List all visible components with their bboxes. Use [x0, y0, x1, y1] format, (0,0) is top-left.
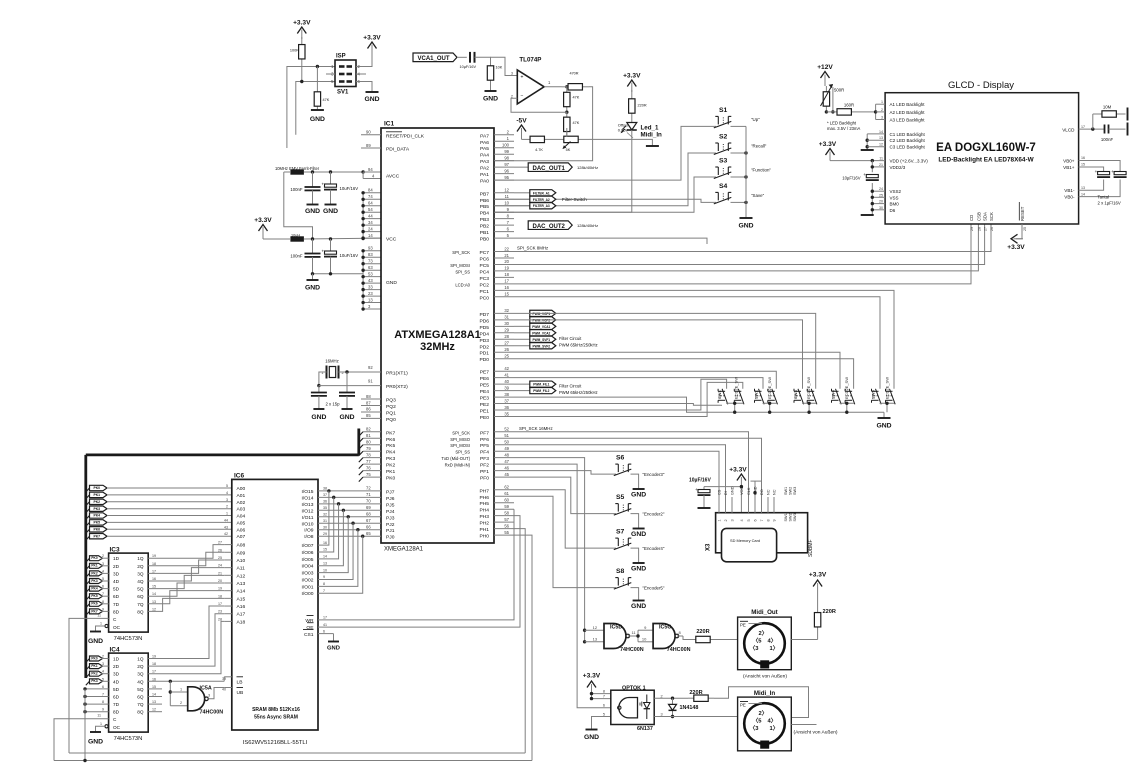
svg-text:〈3: 〈3	[750, 724, 760, 732]
svg-text:VDD (+2.6V...3.3V): VDD (+2.6V...3.3V)	[890, 159, 929, 164]
svg-text:A04: A04	[237, 514, 246, 520]
svg-text:57: 57	[504, 517, 509, 522]
switch SW2 encoder A	[759, 389, 765, 405]
svg-text:PF7: PF7	[480, 430, 489, 436]
svg-text:PA6: PA6	[480, 140, 489, 146]
net flag PK7 to SRAM A07	[86, 536, 90, 540]
svg-text:CS1: CS1	[304, 632, 314, 638]
svg-text:I/O03: I/O03	[302, 571, 314, 577]
svg-text:S5: S5	[616, 494, 625, 501]
switch S5	[614, 509, 632, 515]
svg-text:74HC00N: 74HC00N	[620, 647, 644, 653]
svg-text:500R: 500R	[834, 88, 844, 93]
ground GND under 10K	[490, 84, 492, 91]
power +3.3V at ISP pin2	[368, 42, 377, 49]
nand gate IC5C 74HC00N	[653, 624, 675, 649]
svg-text:44: 44	[224, 518, 228, 522]
pin SRAM IO05 wire to data pair	[318, 504, 339, 559]
svg-text:6D: 6D	[113, 695, 120, 700]
svg-text:8: 8	[102, 700, 104, 704]
svg-text:+3.3V: +3.3V	[729, 467, 747, 474]
svg-text:PA4: PA4	[480, 153, 489, 159]
svg-text:S6: S6	[616, 455, 625, 462]
svg-text:3: 3	[208, 694, 210, 698]
svg-text:49: 49	[504, 446, 509, 451]
svg-text:16: 16	[1081, 156, 1085, 160]
svg-text:PJ1: PJ1	[386, 528, 395, 534]
net flag PK2 into IC4 pin 4	[86, 674, 90, 678]
svg-text:5Q: 5Q	[137, 587, 144, 592]
svg-text:13: 13	[1081, 186, 1085, 190]
svg-text:A11: A11	[237, 566, 246, 572]
svg-text:61: 61	[504, 491, 509, 496]
svg-text:25: 25	[1023, 227, 1027, 231]
svg-text:7: 7	[102, 592, 104, 596]
svg-text:PK0: PK0	[386, 476, 396, 482]
wire ISP pin6 to GND	[356, 82, 372, 93]
svg-text:PB2: PB2	[480, 224, 490, 230]
svg-text:SDA: SDA	[983, 212, 988, 221]
svg-text:Midi_In: Midi_In	[641, 132, 663, 139]
wire PF7 SCK to SD CLK	[514, 432, 749, 497]
svg-text:7D: 7D	[113, 602, 120, 607]
svg-text:35: 35	[323, 506, 327, 510]
svg-text:PB0: PB0	[480, 237, 490, 243]
svg-text:1D: 1D	[113, 657, 120, 662]
svg-text:18: 18	[152, 562, 156, 566]
wire latch enable rail 2	[54, 760, 532, 762]
svg-text:ECD2E_SW: ECD2E_SW	[733, 377, 738, 399]
wire switch S4 to common bus	[731, 201, 747, 203]
pin SRAM IO11 wire to IC1 PJ3	[318, 516, 381, 518]
svg-text:NC: NC	[773, 489, 777, 495]
svg-text:PD0: PD0	[479, 357, 489, 363]
svg-text:6: 6	[102, 685, 104, 689]
wire IC3 3Q to SRAM A10	[148, 560, 224, 573]
ground GND encoder rail	[883, 412, 885, 418]
svg-text:SD Memory Card: SD Memory Card	[730, 538, 760, 543]
svg-text:1Q: 1Q	[137, 556, 144, 561]
capacitor 10uF/16V coupling	[457, 56, 467, 58]
svg-text:25: 25	[504, 353, 509, 358]
switch SW5 encoder A	[876, 389, 882, 405]
svg-text:10µF/16V: 10µF/16V	[842, 176, 860, 181]
switch SW3 encoder A	[798, 389, 804, 405]
svg-text:+3.3V: +3.3V	[809, 572, 827, 579]
wire MIDI out pin4 to pullup	[791, 639, 817, 641]
svg-text:VB0+: VB0+	[1063, 159, 1075, 164]
svg-text:3: 3	[102, 562, 104, 566]
svg-text:59: 59	[504, 504, 509, 509]
svg-text:40: 40	[504, 379, 509, 384]
wire A1-A3 pin bus	[875, 104, 877, 119]
svg-text:D6: D6	[890, 208, 896, 213]
svg-text:5Q: 5Q	[137, 687, 144, 692]
svg-text:PK0: PK0	[91, 556, 97, 560]
ground GND left cap	[313, 408, 324, 410]
svg-text:27: 27	[218, 541, 222, 545]
svg-text:18: 18	[504, 272, 509, 277]
svg-text:PJ3: PJ3	[386, 515, 395, 521]
svg-text:5: 5	[747, 519, 751, 521]
svg-text:37: 37	[504, 398, 509, 403]
svg-text:84: 84	[368, 188, 373, 193]
svg-text:Led_1: Led_1	[641, 125, 659, 132]
svg-text:5D: 5D	[113, 687, 120, 692]
svg-text:30: 30	[323, 525, 327, 529]
resistor 160R backlight	[826, 111, 837, 113]
svg-text:10M: 10M	[1103, 105, 1112, 110]
svg-text:56: 56	[504, 523, 509, 528]
svg-text:SW4: SW4	[831, 390, 836, 399]
svg-text:PK4: PK4	[93, 514, 100, 518]
svg-text:+: +	[863, 172, 866, 177]
svg-text:15: 15	[323, 548, 327, 552]
svg-text:81: 81	[366, 433, 371, 438]
switch SW1 encoder A	[722, 389, 728, 405]
ground GND 100nF (rotated)	[1127, 123, 1129, 136]
svg-text:DI: DI	[724, 491, 728, 495]
wire C1-C3 pin bus to GND	[866, 134, 868, 150]
wire PC2 CD to GLCD	[514, 224, 971, 284]
switch S6	[614, 469, 632, 476]
switch S3	[714, 172, 732, 179]
wire PC4 CSB to GLCD	[514, 224, 978, 271]
svg-text:PD7: PD7	[479, 312, 489, 318]
svg-text:97: 97	[504, 162, 509, 167]
svg-text:PC2: PC2	[479, 282, 489, 288]
svg-text:A15: A15	[237, 596, 246, 602]
svg-text:PH5: PH5	[479, 501, 489, 507]
ground GND under AVCC 100nF	[307, 204, 319, 206]
svg-text:89: 89	[366, 143, 371, 148]
svg-text:Midi_In: Midi_In	[754, 690, 776, 697]
svg-text:15: 15	[152, 585, 156, 589]
svg-text:SW1: SW1	[717, 390, 722, 399]
svg-text:PH6: PH6	[479, 495, 489, 501]
svg-text:86: 86	[366, 407, 371, 412]
svg-text:21: 21	[218, 571, 222, 575]
svg-text:1: 1	[100, 622, 102, 626]
svg-text:3: 3	[881, 116, 883, 120]
svg-text:28: 28	[218, 617, 222, 621]
svg-text:10µF/16V: 10µF/16V	[460, 65, 477, 69]
wire PH6 to button S8	[514, 496, 616, 587]
wire IC3 4Q to SRAM A11	[148, 568, 224, 581]
svg-text:PJ6: PJ6	[386, 496, 395, 502]
svg-text:47K: 47K	[573, 96, 580, 100]
svg-text:"Encoder5": "Encoder5"	[643, 586, 665, 591]
svg-text:PK1: PK1	[91, 664, 97, 668]
svg-text:PK4: PK4	[386, 450, 396, 456]
svg-text:PDI_DATA: PDI_DATA	[386, 147, 410, 153]
svg-text:10: 10	[642, 637, 647, 642]
svg-text:100R: 100R	[290, 49, 299, 53]
wire NAND IC5A inputs from 4Q	[169, 681, 171, 705]
wire switch S2 to common bus	[731, 152, 747, 154]
pin SRAM IO9 wire to IC1 PJ1	[318, 529, 381, 531]
svg-text:BM0: BM0	[890, 202, 900, 207]
svg-text:A08: A08	[237, 543, 246, 549]
pin SRAM A12	[224, 574, 232, 576]
svg-text:PE4: PE4	[480, 389, 490, 395]
svg-text:4D: 4D	[113, 579, 120, 584]
wire IC3 7Q to SRAM A14	[148, 591, 224, 604]
svg-text:16: 16	[152, 677, 156, 681]
ground GND optocoupler	[586, 729, 598, 731]
wire SW5 pair bottom tie	[880, 402, 894, 405]
wire IC4 5D-8D inputs bus	[85, 688, 109, 690]
svg-text:PC6: PC6	[479, 256, 489, 262]
wire op-amp output	[544, 86, 561, 88]
svg-text:38: 38	[504, 392, 509, 397]
svg-text:13: 13	[152, 600, 156, 604]
pins PA7-PA0	[494, 134, 514, 136]
switch SW4 encoder A	[836, 389, 842, 405]
svg-text:15: 15	[152, 685, 156, 689]
svg-text:Filter Circuit: Filter Circuit	[559, 384, 582, 389]
svg-text:DO: DO	[760, 489, 764, 495]
svg-text:I/O07: I/O07	[302, 543, 314, 549]
svg-text:SW2: SW2	[789, 513, 793, 521]
pin SRAM IO02 wire to data pair	[318, 523, 353, 579]
svg-text:PE6: PE6	[480, 376, 490, 382]
pin PR0 91 crystal	[361, 385, 381, 387]
pin SRAM IO04 wire to data pair	[318, 510, 343, 565]
svg-text:A12: A12	[237, 573, 246, 579]
svg-text:5: 5	[226, 484, 228, 488]
svg-text:X3: X3	[706, 543, 712, 551]
svg-text:A00: A00	[237, 486, 246, 492]
svg-text:TL074P: TL074P	[519, 57, 541, 64]
net flag PK1 to SRAM A01	[86, 495, 90, 499]
wire opto supply pins 8 7	[592, 693, 611, 695]
svg-text:62: 62	[504, 485, 509, 490]
wire IC4 outputs to SRAM A16-A18	[148, 606, 224, 658]
svg-text:55: 55	[504, 530, 509, 535]
svg-text:PWM 65kHz/250kHz: PWM 65kHz/250kHz	[559, 390, 598, 395]
wire ISP pin2 to +3.3V	[356, 53, 372, 67]
svg-text:20: 20	[504, 259, 509, 264]
trimmer 500R	[825, 86, 827, 92]
resistor 47K to offset divider	[566, 112, 568, 117]
svg-text:4Q: 4Q	[137, 679, 144, 684]
resistor R 100R (RESET pullup)	[301, 37, 303, 45]
svg-text:3: 3	[102, 662, 104, 666]
svg-text:LCD:A0: LCD:A0	[455, 282, 470, 287]
svg-text:SW2: SW2	[789, 487, 793, 495]
svg-text:71: 71	[366, 492, 371, 497]
svg-text:99: 99	[504, 149, 509, 154]
svg-text:35: 35	[504, 411, 509, 416]
svg-text:PH0: PH0	[479, 534, 489, 540]
svg-text:FILTER_A3: FILTER_A3	[533, 204, 550, 208]
wire PD1 to encoder SW4a	[514, 352, 840, 389]
svg-text:VSS2: VSS2	[890, 189, 902, 194]
svg-text:66: 66	[366, 525, 371, 530]
svg-text:PK1: PK1	[91, 564, 97, 568]
svg-text:41: 41	[323, 623, 327, 627]
svg-text:GND: GND	[311, 414, 326, 421]
svg-text:220R: 220R	[823, 609, 836, 615]
connector SV1 ISP header	[335, 60, 356, 87]
svg-text:PF0: PF0	[480, 476, 489, 482]
svg-text:PWM_FIL2: PWM_FIL2	[533, 389, 549, 393]
svg-text:I/O14: I/O14	[302, 495, 314, 501]
svg-text:PK1: PK1	[93, 493, 100, 497]
svg-text:7D: 7D	[113, 702, 120, 707]
svg-text:3: 3	[661, 712, 663, 716]
svg-text:17: 17	[218, 602, 222, 606]
ground GND for S1-S4	[740, 217, 753, 219]
pin PR1 92 crystal	[361, 371, 381, 373]
svg-text:26: 26	[990, 227, 994, 231]
wire 160R to A pins	[862, 111, 876, 113]
svg-text:PK4: PK4	[91, 587, 97, 591]
svg-text:76: 76	[366, 465, 371, 470]
switch S1	[714, 121, 732, 128]
ground GND for S5	[633, 528, 645, 530]
ground GND backlight cathodes	[861, 149, 874, 151]
svg-text:8D: 8D	[113, 609, 120, 614]
svg-text:GND: GND	[88, 638, 103, 645]
svg-text:PC4: PC4	[479, 269, 489, 275]
svg-text:ECD2E_SW: ECD2E_SW	[885, 377, 890, 399]
svg-text:VSS: VSS	[890, 195, 899, 200]
svg-text:ATXMEGA128A1: ATXMEGA128A1	[394, 329, 481, 341]
svg-text:VCC: VCC	[740, 487, 744, 495]
svg-text:5K: 5K	[566, 148, 571, 152]
svg-text:47: 47	[504, 459, 509, 464]
svg-text:46: 46	[504, 465, 509, 470]
svg-text:GND: GND	[584, 734, 599, 741]
svg-text:PK5: PK5	[93, 521, 100, 525]
svg-text:TxD (Mid-OUT): TxD (Mid-OUT)	[441, 456, 470, 461]
svg-text:3D: 3D	[113, 571, 120, 576]
svg-text:PA2: PA2	[480, 166, 489, 172]
wire GLCD RESET to +3.3V	[1016, 224, 1022, 239]
svg-text:20: 20	[879, 200, 883, 204]
svg-text:24: 24	[368, 226, 373, 231]
svg-text:12: 12	[504, 188, 509, 193]
wire PH3 to SRAM OE	[322, 516, 520, 627]
svg-text:PA3: PA3	[480, 159, 489, 165]
svg-text:3: 3	[511, 72, 513, 76]
pins PD7-PD0	[494, 312, 514, 314]
svg-text:SPI_MISO: SPI_MISO	[450, 437, 471, 442]
svg-text:PWM 65kHz/250kHz: PWM 65kHz/250kHz	[559, 343, 598, 348]
svg-text:PK5: PK5	[91, 594, 97, 598]
svg-text:SPI_MOSI: SPI_MOSI	[450, 263, 470, 268]
svg-text:PC7: PC7	[479, 250, 489, 256]
svg-text:AVCC: AVCC	[386, 174, 400, 180]
pin SRAM IO15 wire to IC1 PJ7	[318, 490, 381, 492]
net flag PK3 to SRAM A03	[86, 509, 90, 513]
svg-text:SRAM 8Mb 512Kx16: SRAM 8Mb 512Kx16	[252, 707, 300, 713]
svg-text:10uF/16V: 10uF/16V	[340, 186, 359, 191]
svg-text:ECD2E_SW: ECD2E_SW	[844, 377, 849, 399]
svg-text:Filter Circuit: Filter Circuit	[559, 336, 582, 341]
svg-text:GND: GND	[305, 208, 320, 215]
wire latch enable rail 1	[69, 752, 525, 754]
wire VCC pin bus on IC1	[362, 193, 364, 239]
svg-text:UB: UB	[237, 690, 244, 696]
svg-text:IC6: IC6	[234, 473, 245, 480]
svg-text:A3 LED Backlight: A3 LED Backlight	[890, 118, 926, 123]
wire switch S1 to common bus	[731, 125, 747, 127]
svg-text:3: 3	[226, 498, 228, 502]
svg-text:74HC00N: 74HC00N	[667, 647, 691, 653]
svg-text:FILTER_A1: FILTER_A1	[533, 191, 550, 195]
wire cap ground tie to IC1 GND pins	[313, 273, 364, 275]
svg-text:10: 10	[504, 201, 509, 206]
resistor 10K to ground	[490, 62, 492, 66]
microcontroller IC1 ATXMEGA128A1	[381, 128, 494, 543]
svg-text:C1 LED Backlight: C1 LED Backlight	[890, 132, 926, 137]
svg-text:I/O05: I/O05	[302, 557, 314, 563]
svg-text:14: 14	[368, 233, 373, 238]
svg-text:+12V: +12V	[817, 64, 833, 71]
svg-text:36: 36	[504, 405, 509, 410]
capacitor tantal 1uF B	[1114, 172, 1126, 175]
wire PF3 TxD to NAND inputs	[514, 458, 585, 642]
svg-text:LB: LB	[237, 679, 243, 685]
svg-text:24: 24	[879, 187, 883, 191]
resistor 220R LED	[631, 90, 633, 99]
wire VLCD network	[1079, 128, 1104, 130]
svg-text:GND: GND	[631, 492, 646, 499]
wire NAND input ties IC5D	[583, 629, 586, 632]
svg-text:16: 16	[152, 577, 156, 581]
svg-text:PD4: PD4	[479, 331, 489, 337]
svg-text:PH1: PH1	[479, 527, 489, 533]
svg-text:−: −	[521, 94, 524, 100]
ground GND right cap	[342, 408, 353, 410]
connector X3 SD Memory Card	[716, 513, 808, 553]
svg-text:2: 2	[724, 519, 728, 521]
wire PH1 to latch rail 1	[514, 529, 525, 753]
svg-text:2: 2	[102, 554, 104, 558]
pin SRAM IO07 wire to data pair	[318, 491, 329, 545]
svg-text:16: 16	[323, 541, 327, 545]
svg-text:PH2: PH2	[479, 521, 489, 527]
svg-text:93: 93	[368, 246, 373, 251]
wire PB0 stub	[514, 238, 707, 244]
svg-text:20: 20	[218, 579, 222, 583]
svg-text:67: 67	[366, 518, 371, 523]
wire VCA input node	[475, 57, 491, 62]
svg-text:470R: 470R	[569, 72, 578, 76]
ground GND under VCC caps	[312, 274, 314, 280]
svg-text:Midi_Out: Midi_Out	[751, 609, 777, 616]
LED Led_1 Midi_In	[627, 123, 637, 131]
ground GND GLCD VSS	[861, 214, 874, 216]
svg-text:PK6: PK6	[93, 527, 100, 531]
net flag PK3 into IC4 pin 5	[86, 681, 90, 685]
svg-text:FILTER_A2: FILTER_A2	[533, 198, 550, 202]
net flag PK2 to SRAM A02	[86, 502, 90, 506]
wire IC4 output stubs	[148, 688, 162, 690]
svg-text:PQ0: PQ0	[386, 417, 396, 423]
resistor 220R MIDI in	[688, 697, 694, 699]
svg-text:SW3: SW3	[793, 513, 797, 521]
svg-text:4D: 4D	[113, 679, 120, 684]
svg-text:5: 5	[102, 677, 104, 681]
svg-text:48: 48	[504, 452, 509, 457]
svg-text:9: 9	[102, 607, 104, 611]
wire from IC1 to switch S3	[494, 177, 716, 212]
svg-text:3: 3	[731, 519, 735, 521]
